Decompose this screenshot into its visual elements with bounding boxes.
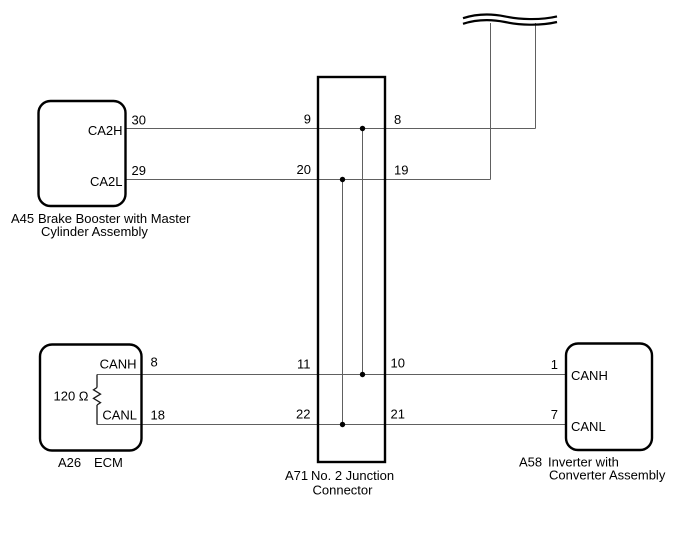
svg-text:Converter Assembly: Converter Assembly: [549, 468, 666, 483]
wire CANL bus (A26 pin 18 to A58 pin 7, horizontal): [97, 424, 566, 426]
connector A45 (Brake Booster with Master Cylinder Assembly) box: [39, 101, 126, 206]
svg-text:8: 8: [394, 112, 401, 127]
svg-text:A58: A58: [519, 454, 542, 469]
svg-text:CANH: CANH: [100, 356, 137, 371]
svg-text:7: 7: [551, 407, 558, 422]
wire vertical riser from CA2H bus up to continuation symbol: [535, 23, 537, 129]
svg-text:Connector: Connector: [313, 483, 374, 498]
junction dot on CANH wire at pin 11/10 vertical: [360, 372, 365, 377]
svg-text:Cylinder Assembly: Cylinder Assembly: [41, 224, 148, 239]
svg-text:9: 9: [304, 111, 311, 126]
connector A58 (Inverter with Converter Assembly) box: [566, 344, 652, 451]
svg-text:ECM: ECM: [94, 455, 123, 470]
svg-text:A71: A71: [285, 468, 308, 483]
svg-text:21: 21: [391, 406, 405, 421]
svg-text:29: 29: [132, 163, 146, 178]
wire CA2L bus (A45 pin 29 to junction, horizontal): [126, 179, 491, 181]
svg-text:CANL: CANL: [571, 419, 606, 434]
svg-text:19: 19: [394, 163, 408, 178]
wire vertical CANH link inside junction connector (pin 9/8 to pin 11/10): [362, 129, 364, 375]
continuation symbol (double wavy line, CAN bus continues): [463, 15, 557, 25]
resistor 120 ohm terminating resistor inside A26: [94, 375, 101, 425]
wire CA2H bus (A45 pin 30 to junction, horizontal): [126, 128, 536, 130]
svg-text:A26: A26: [58, 455, 81, 470]
junction dot on CANL wire at pin 22/21 vertical: [340, 422, 345, 427]
svg-text:18: 18: [151, 408, 165, 423]
connector A71 (No. 2 Junction Connector) box: [318, 77, 385, 462]
wire vertical CANL link inside junction connector (pin 20/19 to pin 22/21): [342, 180, 344, 425]
svg-text:10: 10: [391, 356, 405, 371]
junction dot on CA2H wire at pin 9/8 vertical: [360, 126, 365, 131]
svg-text:CANL: CANL: [102, 407, 137, 422]
svg-text:A45: A45: [11, 211, 34, 226]
svg-text:8: 8: [151, 354, 158, 369]
connector A26 (ECM) box: [40, 345, 142, 451]
svg-text:1: 1: [551, 357, 558, 372]
svg-text:11: 11: [297, 357, 311, 372]
svg-text:CA2H: CA2H: [88, 123, 123, 138]
svg-text:22: 22: [296, 407, 310, 422]
svg-text:CANH: CANH: [571, 368, 608, 383]
wire CANH bus (A26 pin 8 to A58 pin 1, horizontal): [97, 374, 566, 376]
wire vertical riser from CA2L bus up to continuation symbol: [490, 23, 492, 180]
junction dot on CA2L wire at pin 20/19 vertical: [340, 177, 345, 182]
svg-text:120 Ω: 120 Ω: [54, 389, 89, 404]
svg-text:No. 2 Junction: No. 2 Junction: [311, 468, 394, 483]
svg-text:CA2L: CA2L: [90, 174, 123, 189]
svg-text:20: 20: [297, 162, 311, 177]
svg-text:30: 30: [132, 112, 146, 127]
